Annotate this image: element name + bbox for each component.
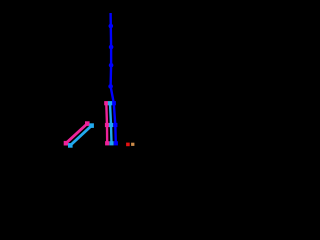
blue marker 6 (square)	[113, 123, 117, 127]
magenta vertical marker 1 (square)	[104, 101, 108, 105]
magenta vertical marker 2 (square)	[105, 123, 109, 127]
tan dot	[131, 143, 134, 146]
blue marker 7 (square)	[114, 141, 118, 145]
blue marker 2 (round)	[109, 45, 114, 50]
blue series line (main, near-vertical with bend)	[111, 13, 116, 143]
blue marker 3 (round)	[109, 63, 114, 68]
magenta vertical marker 3 (square)	[105, 141, 109, 145]
sky-blue vertical marker 1 (square)	[108, 101, 112, 105]
magenta diagonal marker A (square)	[64, 141, 69, 146]
blue marker 5 (square)	[112, 101, 116, 105]
sky-blue diagonal series line	[70, 126, 91, 146]
blue marker 1 (round)	[109, 24, 114, 29]
blue marker 4 (round)	[108, 84, 113, 89]
red dot	[126, 143, 130, 147]
sky-blue vertical marker 2 (square)	[109, 123, 113, 127]
sky-blue diagonal marker A (square)	[68, 143, 73, 148]
sky-blue diagonal marker B (square)	[89, 123, 94, 128]
sky-blue vertical series line	[110, 103, 112, 143]
magenta diagonal marker B (square)	[85, 121, 90, 126]
magenta diagonal series line	[66, 124, 87, 144]
sky-blue vertical marker 3 (square)	[109, 141, 113, 145]
magenta vertical series line	[105, 103, 108, 143]
